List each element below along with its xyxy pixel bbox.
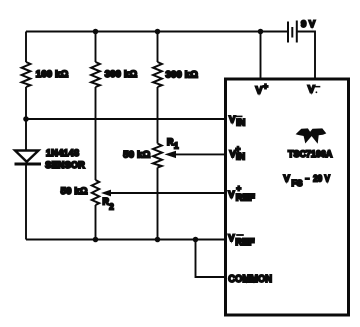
node top rail col3 [155, 29, 161, 35]
svg-text:300 kΩ: 300 kΩ [166, 70, 199, 81]
diode D1 1N4148 [15, 151, 42, 165]
wire V-IN line [26, 118, 225, 120]
wire left column top (rail to R 160k) [25, 32, 27, 63]
svg-text:2: 2 [109, 203, 114, 212]
svg-text:TSC7106A: TSC7106A [288, 149, 332, 160]
wire bottom rail (V-REF line) [26, 239, 225, 241]
wire col1 resistor to node A [25, 87, 27, 119]
wire col2 bottom [95, 205, 97, 240]
svg-text:REF: REF [235, 237, 254, 248]
node V-REF / COMMON junction [193, 237, 199, 243]
battery B1 9V [288, 21, 297, 43]
svg-text:IN: IN [236, 151, 245, 161]
potentiometer R1 wiper arrow [165, 151, 177, 158]
svg-text:20 V: 20 V [313, 174, 330, 185]
svg-text:COMMON: COMMON [228, 273, 272, 285]
svg-text:160 kΩ: 160 kΩ [36, 69, 69, 80]
svg-text:9 V: 9 V [301, 19, 316, 30]
svg-text:300 kΩ: 300 kΩ [105, 69, 138, 80]
wire V+ down [260, 32, 262, 80]
svg-text:V: V [228, 233, 235, 244]
svg-text:V: V [228, 190, 235, 201]
svg-text:V: V [284, 174, 291, 185]
resistor 300k first [91, 62, 100, 87]
resistor 300k second [153, 62, 162, 87]
wire col2 middle [95, 87, 97, 180]
node top rail col2 [93, 29, 99, 35]
potentiometer R2 wiper arrow [101, 190, 111, 197]
IC U1 TSC7106A box [226, 79, 349, 315]
svg-text:+: + [236, 184, 241, 193]
node A (col1 / V-IN junction) [23, 116, 29, 122]
wire COMMON L [196, 240, 225, 278]
wire node A to diode [25, 119, 27, 151]
wire col3 top [157, 32, 159, 63]
svg-text:V: V [256, 84, 263, 96]
svg-text:+: + [263, 81, 268, 91]
wire diode to bottom rail [25, 165, 27, 240]
svg-text:FS: FS [292, 178, 303, 188]
resistor 160k [22, 62, 31, 87]
wire col2 top [95, 32, 97, 63]
wire col3 bottom [157, 168, 159, 240]
potentiometer R1 body [153, 144, 162, 168]
svg-text:REF: REF [236, 193, 255, 204]
node col3 bottom rail [155, 237, 161, 243]
logo TelCom bird [296, 128, 327, 143]
wire R1 wiper to V+IN [173, 153, 225, 155]
svg-text:SENSOR: SENSOR [45, 160, 85, 170]
wire col3 middle [157, 87, 159, 144]
node battery top rail [258, 29, 264, 35]
svg-text:50 kΩ: 50 kΩ [61, 186, 88, 197]
svg-text:1: 1 [174, 141, 179, 150]
svg-text:IN: IN [236, 117, 245, 127]
wire battery to V- bend [297, 32, 315, 80]
wire top rail [26, 31, 287, 33]
svg-text:V: V [229, 115, 236, 126]
svg-text:50 kΩ: 50 kΩ [123, 149, 150, 160]
potentiometer R2 body [92, 180, 99, 205]
wire R2 wiper to V+REF [110, 192, 225, 194]
svg-text:R: R [167, 137, 174, 147]
svg-text:V: V [308, 84, 315, 96]
svg-text:1N4148: 1N4148 [46, 148, 79, 158]
node col2 bottom rail [93, 237, 99, 243]
